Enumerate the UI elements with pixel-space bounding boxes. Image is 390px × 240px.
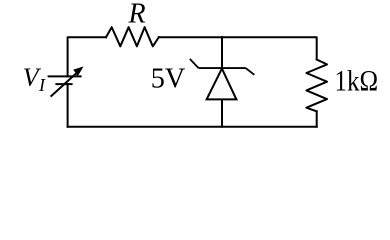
svg-text:I: I: [38, 75, 46, 95]
battery plate short (bottom) of variable source V_I: [55, 83, 72, 85]
zener D cathode bar: [199, 67, 246, 69]
resistor R zigzag: [106, 27, 159, 46]
wire bottom rail: [68, 126, 317, 128]
variable-source arrowhead: [74, 67, 83, 76]
wire top rail right segment + right vertical upper: [159, 37, 317, 59]
wire left vertical lower: [67, 84, 69, 127]
resistor 1kOhm zigzag: [306, 60, 327, 112]
wire middle branch lower: [221, 99, 223, 126]
wire top-left: left vertical upper + top rail left segment: [68, 37, 106, 76]
battery plate long (top) of variable source V_I: [48, 75, 82, 77]
zener bar left tail: [190, 59, 199, 68]
svg-text:R: R: [128, 0, 146, 29]
zener bar right tail: [246, 68, 255, 75]
svg-text:5V: 5V: [151, 63, 186, 95]
wire middle branch upper: [221, 37, 223, 68]
wire right vertical lower: [316, 111, 318, 126]
svg-text:1kΩ: 1kΩ: [335, 64, 379, 97]
zener D anode triangle: [207, 69, 237, 100]
variable-source arrow shaft: [51, 71, 79, 96]
